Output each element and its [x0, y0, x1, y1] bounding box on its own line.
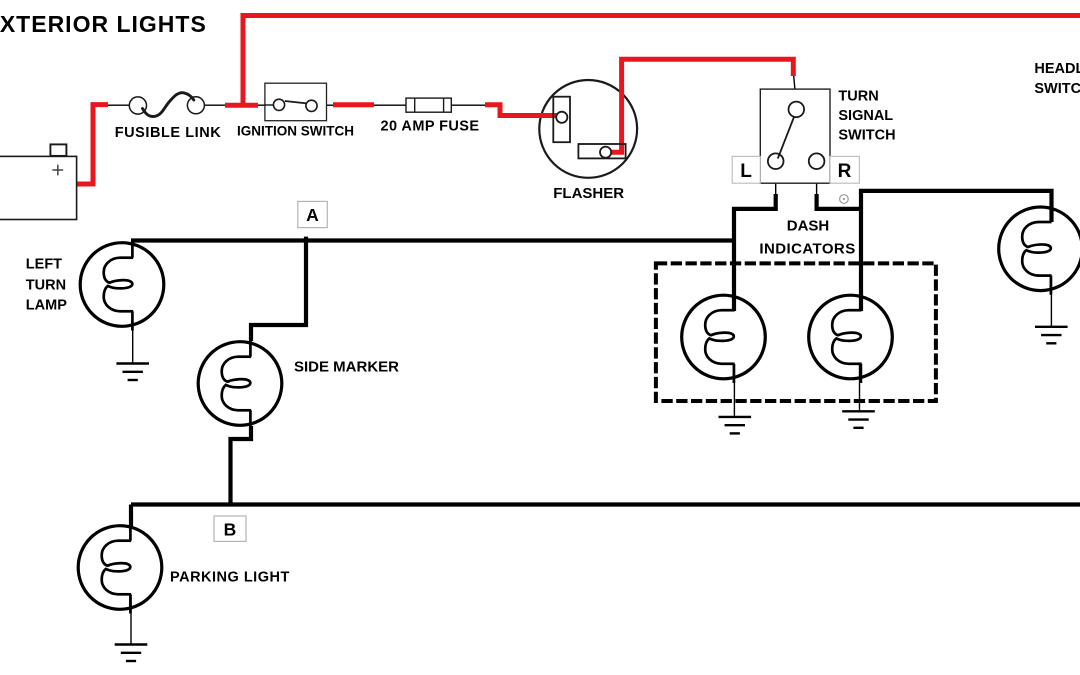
svg-text:20 AMP FUSE: 20 AMP FUSE	[381, 119, 480, 135]
svg-text:DASH: DASH	[787, 218, 830, 235]
svg-text:LAMP: LAMP	[26, 297, 67, 313]
svg-text:R: R	[838, 161, 852, 182]
svg-text:SIGNAL: SIGNAL	[838, 108, 893, 124]
svg-text:B: B	[224, 520, 237, 540]
svg-text:SWITCH: SWITCH	[1034, 81, 1080, 97]
svg-text:INDICATORS: INDICATORS	[759, 240, 855, 257]
svg-text:TURN: TURN	[26, 277, 66, 293]
svg-text:A: A	[306, 205, 319, 225]
svg-text:FUSIBLE LINK: FUSIBLE LINK	[115, 125, 222, 141]
svg-text:EXTERIOR LIGHTS: EXTERIOR LIGHTS	[0, 11, 207, 37]
svg-text:TURN: TURN	[838, 89, 878, 105]
svg-text:FLASHER: FLASHER	[553, 185, 624, 202]
svg-text:PARKING LIGHT: PARKING LIGHT	[170, 570, 290, 586]
svg-text:LEFT: LEFT	[26, 257, 62, 273]
svg-text:HEADLIGHT: HEADLIGHT	[1034, 61, 1080, 77]
svg-text:SIDE MARKER: SIDE MARKER	[294, 359, 399, 376]
svg-text:SWITCH: SWITCH	[838, 128, 895, 144]
svg-text:L: L	[740, 161, 752, 182]
svg-text:IGNITION SWITCH: IGNITION SWITCH	[237, 124, 354, 139]
